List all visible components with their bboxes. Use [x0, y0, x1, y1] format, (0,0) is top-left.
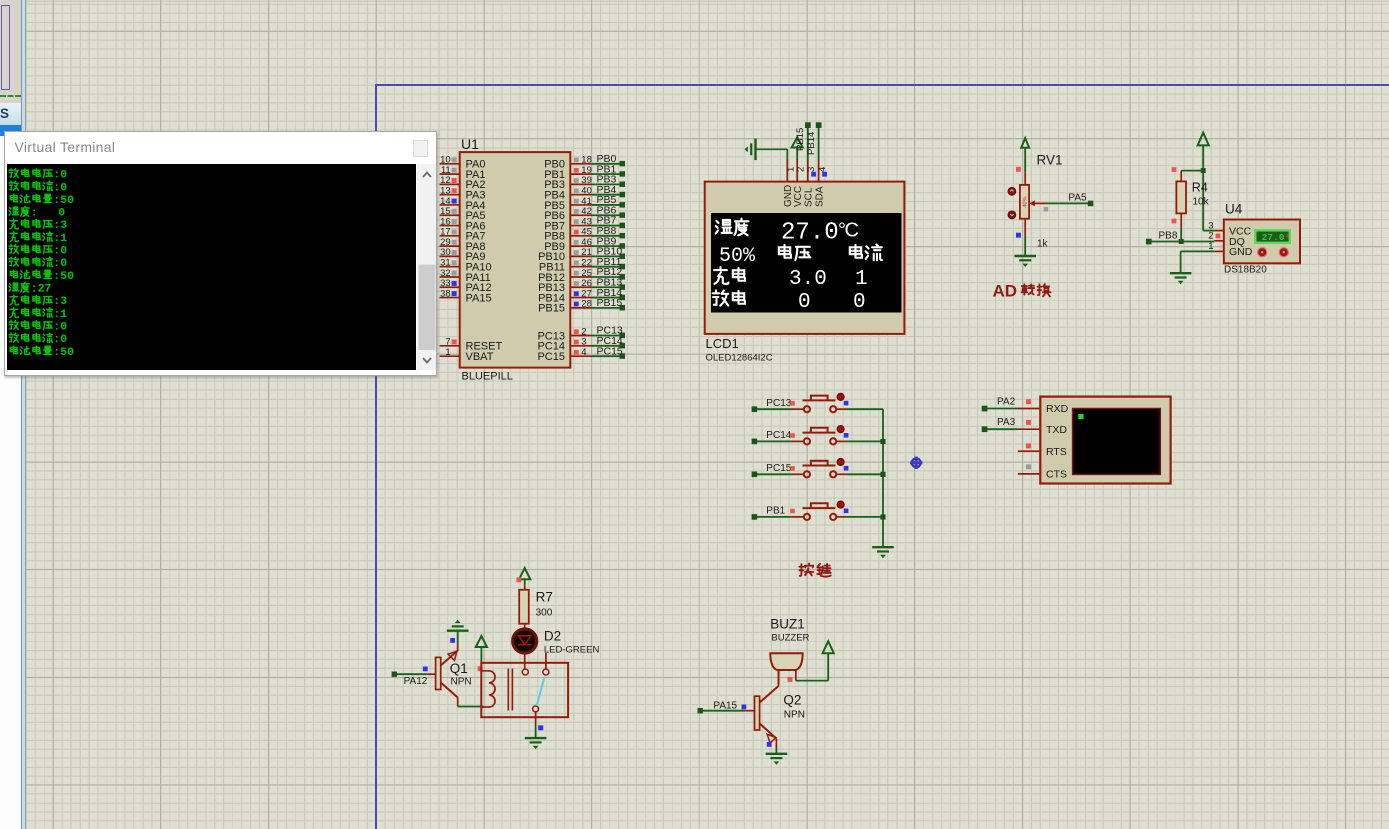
LCD text line4 fangdian 0 0 [713, 290, 866, 314]
svg-text:PA3: PA3 [997, 417, 1016, 428]
wire button PC14 to bus [847, 440, 883, 442]
ground buttons bus [872, 547, 894, 558]
red indicator RXD [1026, 399, 1031, 404]
terminal PA15 [698, 708, 703, 713]
Q1 base pin [426, 673, 435, 675]
svg-text:R7: R7 [536, 590, 553, 605]
wire button PC15 to bus [847, 473, 883, 475]
relay switch arm [537, 677, 545, 706]
relay core [508, 669, 512, 711]
D2 cathode wire to relay contact [524, 653, 526, 669]
U1 pin 22 PB11 [539, 258, 592, 274]
relay body [481, 663, 568, 717]
gray indicator CTS [1026, 464, 1031, 469]
relay NO stub [545, 653, 547, 669]
terminal screen [7, 164, 416, 370]
transistor Q2 base bar [755, 696, 760, 730]
ground Q2 [766, 754, 788, 765]
wire net PB10 [592, 246, 625, 259]
svg-text:1k: 1k [1037, 238, 1049, 249]
junction node PB1 bus [880, 514, 885, 519]
left overview panel [0, 0, 21, 103]
blue indicator Q2 base [742, 705, 747, 710]
resistor R4 body [1176, 181, 1186, 213]
U1 pin 33 PA12 [440, 278, 492, 294]
svg-text:4: 4 [581, 347, 586, 358]
label PA12 [404, 676, 428, 687]
red indicator R7 top [516, 577, 521, 582]
svg-text::50: :50 [54, 269, 75, 282]
label PA5 [1068, 193, 1087, 204]
svg-text:PC14: PC14 [766, 430, 791, 441]
U1 pin 31 PA10 [440, 258, 492, 274]
buzzer BUZ1 body [770, 653, 802, 670]
LCD1 pin 3 SCL [804, 160, 818, 207]
U4 pin 1 GND stub [1208, 241, 1224, 252]
wire R4 top [1181, 170, 1203, 172]
ground (inverted) Q1 [447, 620, 469, 631]
terminal PC15 [752, 472, 758, 478]
power arrow R7 [519, 568, 530, 585]
LED D2 LED-GREEN [513, 629, 537, 653]
wire net PB14 [592, 287, 625, 300]
svg-text::1: :1 [54, 231, 68, 244]
svg-text:1: 1 [855, 268, 868, 291]
svg-text:38: 38 [440, 288, 451, 299]
label PB1 [766, 506, 785, 517]
U1 pin 21 PB10 [538, 247, 592, 263]
U4 decrement button [1279, 248, 1288, 257]
label R7 [536, 590, 553, 605]
label PC15 [766, 463, 791, 474]
svg-text:TXD: TXD [1046, 424, 1067, 436]
terminal scrollbar [417, 164, 437, 370]
ground U4 [1170, 273, 1192, 284]
svg-text::50: :50 [54, 193, 75, 206]
svg-text:NPN: NPN [784, 710, 805, 721]
label PB8 [1159, 231, 1178, 242]
label LED-GREEN [544, 644, 600, 655]
R7 bottom pin [524, 624, 526, 628]
svg-text:OLED12864I2C: OLED12864I2C [706, 353, 773, 364]
green dashed line [0, 95, 21, 97]
svg-text:PB8: PB8 [1159, 231, 1178, 242]
U1 pin 41 PB5 [544, 196, 592, 212]
RV1 decrement button [1008, 211, 1016, 219]
junction node PC15 bus [880, 472, 885, 477]
Q2 emitter wire to ground [775, 739, 777, 754]
label PA15 [713, 701, 737, 712]
U1 pin 28 PB15 [538, 299, 592, 315]
wire net PB8 [592, 225, 625, 238]
svg-text:2: 2 [1208, 231, 1213, 242]
svg-text::3: :3 [54, 219, 68, 232]
label 1k [1037, 238, 1049, 249]
terminal PA3 [982, 426, 988, 432]
svg-text::0: :0 [54, 257, 68, 270]
svg-text:27.0: 27.0 [1262, 232, 1285, 243]
label PC13 [766, 398, 791, 409]
U1 pin 26 PB13 [538, 278, 592, 294]
svg-text:PC15: PC15 [766, 463, 791, 474]
VT pin RXD [1018, 403, 1069, 415]
U1 pin 13 PA3 [440, 185, 486, 201]
red indicator R4 top [1172, 167, 1177, 172]
microcontroller U1 BLUEPILL body [460, 152, 571, 368]
svg-text:PA15: PA15 [466, 292, 492, 304]
S tab [0, 103, 21, 126]
U1 pin 40 PB4 [544, 185, 592, 201]
blue indicator PC15 [844, 466, 849, 471]
svg-text:DS18B20: DS18B20 [1224, 265, 1267, 276]
VT pin RTS [1018, 446, 1067, 458]
svg-text:Q2: Q2 [783, 693, 801, 708]
virtual terminal window [4, 131, 437, 376]
gray indicator RV1 wiper [1044, 207, 1049, 212]
U1 pin 43 PB7 [544, 216, 592, 232]
svg-text:: 0: : 0 [31, 206, 66, 219]
label BLUEPILL [462, 371, 513, 383]
U1 pin 10 PA0 [440, 155, 486, 171]
U1 pin 11 PA1 [440, 165, 486, 181]
U1 pin 18 PB0 [544, 155, 592, 171]
U1 pin 4 PC15 [537, 347, 592, 363]
Q2 base pin [745, 710, 755, 712]
red indicator PC15 [790, 466, 795, 471]
svg-text:10k: 10k [1193, 197, 1210, 208]
scrollbar up arrow [417, 164, 437, 370]
terminal PB15 [795, 122, 811, 151]
BUZ1 left pin [778, 670, 780, 684]
label PA2 [997, 397, 1016, 408]
U1 pin 17 PA7 [440, 227, 486, 243]
label 300 [536, 608, 553, 619]
RV1 bottom pin [1024, 219, 1026, 236]
U1 pin 27 PB14 [538, 288, 592, 304]
junction node PC14 bus [880, 439, 885, 444]
wire PC15 to button [757, 473, 792, 475]
R4 bottom pin [1180, 213, 1182, 228]
wire net PB4 [592, 184, 625, 197]
wire net PB5 [592, 194, 625, 207]
label BUZ1 [770, 617, 805, 632]
U1 pin 30 PA9 [440, 247, 486, 263]
RV1 increment button [1008, 187, 1016, 195]
virtual terminal screen [1073, 409, 1161, 475]
transistor Q1 base bar [436, 657, 441, 689]
svg-text:BUZZER: BUZZER [771, 632, 809, 643]
wire net PB11 [592, 256, 625, 269]
svg-text:GND: GND [1229, 246, 1253, 258]
wire net PB1 [592, 163, 625, 176]
svg-text::0: :0 [54, 168, 68, 181]
U4 pin name DQ [1229, 236, 1245, 248]
svg-text::1: :1 [54, 307, 68, 320]
sheet border top [375, 84, 1389, 86]
blue indicator Q1 emitter [450, 638, 455, 643]
power arrow relay [476, 636, 487, 663]
label PC14 [766, 430, 791, 441]
svg-text:D2: D2 [544, 629, 561, 644]
power VCC arrow at LCD [792, 137, 803, 160]
wire PC14 to button [757, 440, 792, 442]
U1 pin 38 PA15 [440, 288, 492, 304]
red indicator RV1 top [1016, 167, 1021, 172]
svg-text:PA2: PA2 [997, 397, 1016, 408]
Q2 emitter [760, 724, 777, 744]
wire Q1 collector to relay coil [458, 706, 484, 708]
power arrow BUZ1 [823, 641, 834, 653]
U4 pin 3 VCC stub [1208, 220, 1224, 231]
label RV1 [1037, 153, 1063, 168]
terminal PB14 [806, 122, 822, 155]
ground (rotated) at LCD GND [745, 139, 756, 161]
U1 pin 25 PB12 [538, 268, 592, 284]
label R4 [1192, 181, 1208, 195]
wire net PB7 [592, 215, 625, 228]
label 10k [1193, 197, 1210, 208]
terminal PC13 [752, 406, 758, 412]
bus wire buttons to ground [882, 409, 884, 546]
ground RV1 [1014, 256, 1036, 267]
label AD zhuanhuan [993, 281, 1051, 300]
Q1 collector [441, 683, 458, 707]
svg-text:40%: 40% [1022, 196, 1028, 207]
wire net PB0 [592, 153, 625, 166]
window title Virtual Terminal [15, 139, 116, 155]
button actuator PC14 [837, 426, 844, 433]
Q1 emitter wire to ground [457, 632, 459, 652]
LCD text line3 chongdian 3.0 1 [714, 267, 868, 291]
svg-text:PB15: PB15 [795, 128, 806, 151]
wire U4 GND to ground [1181, 251, 1215, 272]
cursor block [1078, 414, 1083, 419]
svg-text:PA5: PA5 [1068, 193, 1087, 204]
junction node R4 top [1201, 168, 1206, 173]
U1 pin 12 PA2 [440, 175, 486, 191]
virtual terminal component body [1040, 397, 1170, 484]
RV1 value mark [1022, 196, 1028, 207]
svg-text::0: :0 [54, 333, 68, 346]
wire net PB6 [592, 204, 625, 217]
svg-text:28: 28 [581, 299, 592, 310]
svg-text:CTS: CTS [1046, 469, 1067, 481]
button actuator PC13 [837, 393, 844, 400]
vertical blue strip [21, 0, 26, 829]
button actuator PC15 [837, 459, 844, 466]
svg-text:50%: 50% [719, 245, 756, 268]
LCD1 body [705, 182, 905, 334]
wire net PB3 [592, 174, 625, 187]
svg-text:PC15: PC15 [537, 351, 565, 363]
relay contact common [522, 669, 528, 675]
red indicator R4 bottom [1172, 219, 1177, 224]
wire net PC15 [592, 345, 625, 358]
wire R4 bottom to PB8 net [1180, 228, 1182, 242]
U1 pin 14 PA4 [440, 196, 486, 212]
label BUZZER [771, 632, 809, 643]
label OLED12864I2C [706, 353, 773, 364]
wire PA3 to TXD [987, 428, 1018, 430]
U1 pin 29 PA8 [440, 237, 486, 253]
label PA3 [997, 417, 1016, 428]
red indicator PC14 [790, 433, 795, 438]
Q2 collector [760, 670, 779, 703]
power arrow RV1 [1021, 138, 1029, 172]
label Q1 [450, 661, 468, 676]
sheet border left [375, 84, 377, 829]
label DS18B20 [1224, 265, 1267, 276]
wire net PB12 [592, 266, 625, 279]
push button PC15 [792, 461, 847, 478]
label Q1 NPN [451, 677, 472, 688]
U1 pin 32 PA11 [440, 268, 491, 284]
wire button PB1 to bus [847, 516, 883, 518]
wire PA12 to Q1 base [397, 673, 427, 675]
blue indicator SCL [811, 172, 816, 177]
blue indicator Q1 base [423, 667, 428, 672]
terminal PA2 [982, 406, 988, 412]
U1 pin 7 RESET [440, 337, 503, 353]
blue indicator RV1 bottom [1016, 233, 1021, 238]
svg-text:300: 300 [536, 608, 553, 619]
push button PC14 [792, 428, 847, 445]
red indicator U4 DQ [1216, 234, 1221, 239]
svg-text:LED-GREEN: LED-GREEN [544, 644, 600, 655]
terminal PA5 [1088, 201, 1094, 207]
svg-text:U4: U4 [1225, 202, 1243, 217]
svg-text:3: 3 [581, 337, 586, 348]
label Q2 NPN [784, 710, 805, 721]
wire SDA to PB14 [818, 126, 820, 161]
svg-text::0: :0 [54, 244, 68, 257]
ground relay [525, 738, 547, 749]
wire PC13 to button [757, 408, 792, 410]
push button PB1 [792, 503, 847, 520]
U1 pin 16 PA6 [440, 216, 486, 232]
svg-text::3: :3 [54, 295, 68, 308]
LCD1 screen [711, 213, 902, 313]
label LCD1 [706, 336, 739, 351]
svg-text:°C: °C [838, 220, 858, 242]
svg-text:PB14: PB14 [806, 132, 817, 155]
red indicator BUZ1 [788, 677, 793, 682]
svg-text:7: 7 [445, 337, 450, 348]
terminal PC14 [752, 439, 758, 445]
power arrow R4/U4 [1198, 133, 1209, 171]
U1 pin 19 PB1 [544, 165, 592, 181]
red indicator RTS [1026, 443, 1031, 448]
red indicator PB1 [790, 509, 795, 514]
U1 pin 15 PA5 [440, 206, 486, 222]
blue indicator SDA [822, 172, 827, 177]
svg-text:AD: AD [993, 281, 1018, 300]
LCD1 pin 2 VCC [793, 160, 807, 207]
wire PA2 to RXD [987, 408, 1018, 410]
U4 pin name GND [1229, 246, 1253, 258]
U4 pin 2 DQ stub [1208, 231, 1224, 242]
U1 pin 3 PC14 [537, 337, 592, 353]
push button PC13 [792, 396, 847, 413]
U4 pin name VCC [1229, 226, 1252, 238]
svg-text:PC13: PC13 [766, 398, 791, 409]
junction node PB8 [1179, 239, 1184, 244]
blue indicator Q2 emitter [767, 742, 772, 747]
svg-text:4: 4 [817, 167, 828, 172]
wire net PB13 [592, 276, 625, 289]
relay coil [482, 671, 496, 707]
LCD text line2 50% dianya dianliu [719, 244, 882, 268]
blue indicator PC14 [844, 433, 849, 438]
svg-text:3: 3 [806, 167, 817, 172]
U4 increment button [1258, 248, 1267, 257]
terminal PB1 [752, 514, 758, 520]
temperature sensor U4 body [1224, 220, 1300, 264]
U1 pin 46 PB9 [544, 237, 592, 253]
svg-text::27: :27 [31, 282, 52, 295]
svg-text::0: :0 [54, 181, 68, 194]
terminal PA12 [392, 672, 397, 677]
svg-text:R4: R4 [1192, 181, 1208, 195]
U1 pin 42 PB6 [544, 206, 592, 222]
wire LCD GND [755, 149, 787, 160]
U1 pin 45 PB8 [544, 227, 592, 243]
wire button PC13 to bus [847, 408, 883, 410]
wire net PC13 [592, 325, 625, 338]
cursor crosshair [910, 457, 922, 469]
svg-text:VBAT: VBAT [466, 351, 494, 363]
Q1 emitter [441, 651, 458, 666]
svg-text:VCC: VCC [793, 186, 804, 207]
U4 temperature display 27.0 [1255, 230, 1290, 243]
VT pin TXD [1018, 424, 1068, 436]
window close button [413, 140, 428, 157]
LCD text line1 wendu 27.0C [716, 219, 859, 247]
svg-text:PA15: PA15 [713, 701, 737, 712]
svg-text:27.0: 27.0 [781, 220, 839, 247]
svg-text:PB15: PB15 [538, 303, 565, 315]
label Q2 [783, 693, 801, 708]
relay contact pole [533, 706, 539, 712]
svg-text:Q1: Q1 [450, 661, 468, 676]
RV1 wiper wire to PA5 [1029, 200, 1089, 206]
svg-text::0: :0 [54, 320, 68, 333]
svg-text:PB15: PB15 [597, 297, 623, 309]
svg-text:SDA: SDA [814, 186, 825, 207]
label U1 [461, 136, 479, 152]
red indicator PC13 [790, 401, 795, 406]
VT pin CTS [1018, 469, 1067, 481]
wire net PC14 [592, 335, 625, 348]
relay pole wire down [535, 712, 537, 737]
RV1 top pin [1024, 172, 1026, 185]
wire RV1 to ground [1024, 236, 1026, 256]
wire PA15 to Q2 base [703, 710, 745, 712]
wire power to U4 VCC [1203, 171, 1214, 231]
wire net PB15 [592, 297, 625, 310]
svg-text:BUZ1: BUZ1 [770, 617, 805, 632]
svg-text:RXD: RXD [1046, 403, 1069, 415]
svg-text:2: 2 [796, 167, 807, 172]
svg-text:BLUEPILL: BLUEPILL [462, 371, 513, 383]
svg-text:PB1: PB1 [766, 506, 785, 517]
svg-text:0: 0 [853, 291, 866, 314]
BUZ1 right pin [795, 670, 797, 681]
LCD1 pin 1 GND [783, 160, 797, 207]
svg-text:PA12: PA12 [404, 676, 428, 687]
blue indicator PB1 [844, 509, 849, 514]
wire BUZ1 to power [796, 654, 828, 681]
